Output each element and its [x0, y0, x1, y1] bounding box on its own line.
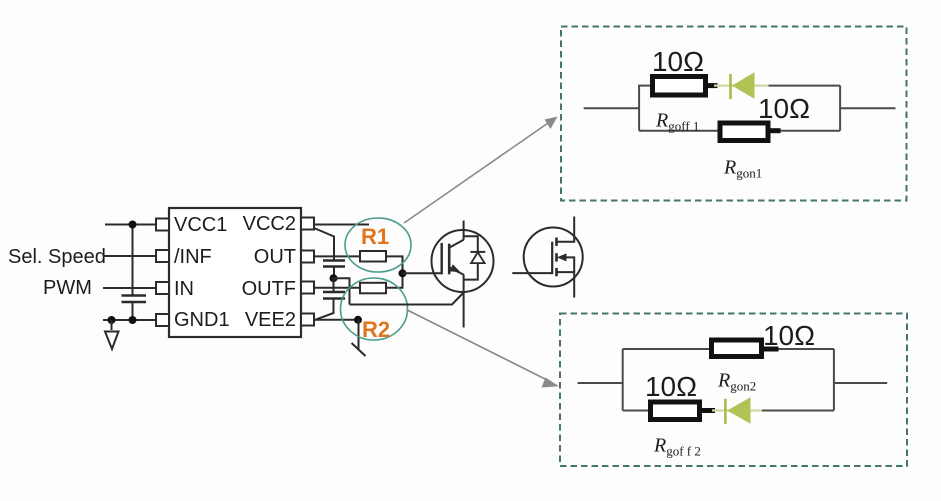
pin OUT — [301, 251, 314, 263]
junction dot VCC1 — [129, 221, 137, 229]
arrow pointer to top detail box — [404, 117, 558, 224]
junction dot GND left — [108, 316, 116, 324]
svg-text:10Ω: 10Ω — [645, 371, 697, 402]
wire IN (PWM) — [103, 287, 157, 289]
svg-text:R2: R2 — [362, 317, 390, 342]
svg-text:10Ω: 10Ω — [758, 93, 810, 124]
wire /INF (Sel. Speed) — [103, 255, 157, 257]
wire VEE2 to stub — [314, 319, 358, 321]
wire top branch right (box1) — [769, 85, 841, 87]
svg-text:VEE2: VEE2 — [245, 309, 296, 331]
resistor Rgon1 10ohm — [720, 123, 781, 141]
wire cap C2 to midpoint — [333, 267, 335, 279]
wire VCC1 — [105, 224, 157, 226]
svg-text:R1: R1 — [361, 224, 389, 249]
pin IN — [156, 282, 169, 294]
pin /INF — [156, 250, 169, 262]
svg-text:10Ω: 10Ω — [652, 46, 704, 77]
wire exit (box1) — [840, 107, 895, 109]
resistor Rgon2 10ohm — [712, 340, 779, 357]
wire bottom branch left (box1) — [639, 130, 719, 132]
wire VCC2 diagonal to bypass — [314, 228, 334, 260]
junction dot VEE2 stub — [354, 316, 362, 324]
wire bottom branch right (box2) — [762, 410, 834, 412]
wire cap C3 to VEE2 — [315, 299, 334, 320]
wire entry (box2) — [578, 382, 623, 384]
detail box 1 (R1 network) — [561, 27, 907, 201]
svg-text:OUT: OUT — [254, 246, 296, 268]
wire top branch left (box1) — [638, 85, 652, 87]
wire gate node to IGBT gate — [403, 272, 442, 274]
wire bottom branch left (box2) — [623, 410, 650, 412]
pin OUTF — [301, 282, 314, 294]
resistor R2 — [360, 283, 386, 294]
pin VCC1 — [156, 219, 169, 231]
junction dot gate node — [399, 269, 407, 277]
svg-text:Sel. Speed: Sel. Speed — [8, 246, 106, 268]
wire midpoint to emitter rail — [334, 278, 350, 304]
wire top branch right (box2) — [779, 348, 834, 350]
wire OUT to R1 — [314, 255, 361, 257]
wire R1 to gate node — [386, 256, 403, 273]
wire bottom branch right (box1) — [781, 130, 841, 132]
pin GND1 — [156, 314, 169, 326]
ground — [105, 320, 119, 349]
wire vertical VCC1-to-cap — [132, 225, 134, 296]
svg-text:PWM: PWM — [43, 277, 92, 299]
transistor Q2 MOSFET — [512, 217, 582, 298]
wire OUTF to R2 — [314, 287, 361, 289]
wire GND1 — [103, 319, 157, 321]
svg-text:VCC2: VCC2 — [243, 213, 296, 235]
svg-text:IN: IN — [174, 278, 194, 300]
svg-text:/INF: /INF — [174, 246, 212, 268]
wire VEE2 stub down — [358, 320, 360, 350]
detail box 2 (R2 network) — [560, 314, 907, 467]
wire right bar (box2) — [833, 349, 835, 411]
resistor Rgoff1 10ohm — [653, 77, 718, 96]
wire exit (box2) — [834, 382, 887, 384]
resistor Rgoff2 10ohm — [651, 402, 716, 420]
svg-text:VCC1: VCC1 — [174, 214, 227, 236]
transistor Q1 IGBT — [432, 221, 494, 328]
diode D1 — [714, 72, 769, 99]
pin VCC2 — [301, 218, 314, 230]
node R2 circle — [341, 278, 408, 340]
wire dot to cap C3 — [333, 278, 335, 292]
wire emitter rail — [350, 293, 464, 305]
junction dot GND mid — [129, 316, 137, 324]
svg-text:OUTF: OUTF — [242, 278, 296, 300]
pin VEE2 — [301, 314, 314, 326]
capacitor C1 input — [122, 296, 147, 303]
wire right bar (box1) — [839, 86, 841, 131]
wire R2 to gate node — [386, 273, 403, 287]
svg-text:GND1: GND1 — [174, 309, 230, 331]
arrow pointer to bottom detail box — [407, 310, 560, 388]
wire cap-to-GND — [132, 302, 134, 320]
capacitor C3 (VEE2 side) — [323, 292, 345, 299]
wire top branch left (box2) — [623, 348, 712, 350]
op-amp U1 gate driver IC body — [169, 208, 301, 337]
diode D2 — [712, 397, 762, 424]
wire VCC2 horizontal — [314, 224, 369, 226]
wire entry (box1) — [584, 107, 639, 109]
junction dot mid supply — [330, 274, 338, 282]
svg-text:10Ω: 10Ω — [763, 320, 815, 351]
slash cut mark — [352, 343, 366, 356]
wire left bar (box2) — [622, 349, 624, 411]
node R1 circle — [345, 218, 411, 272]
resistor R1 — [360, 251, 386, 262]
capacitor C2 (VCC2 side) — [323, 261, 345, 267]
wire left bar (box1) — [638, 86, 640, 131]
